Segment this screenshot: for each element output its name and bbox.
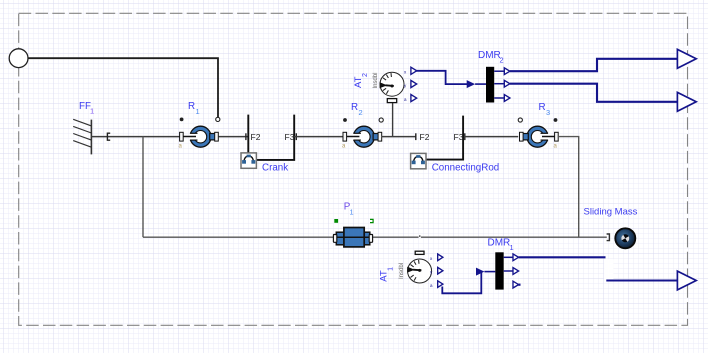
border output connector 3 — [677, 271, 696, 290]
wire Crank F3 to R2 — [294, 136, 343, 138]
prismatic joint P1 — [333, 228, 372, 247]
wire FF1 to R1 — [92, 136, 180, 138]
sensor AT2 gauge — [380, 72, 404, 102]
svg-text:Insdbl: Insdbl — [399, 263, 405, 279]
wire R2 to ConnectingRod F2 — [382, 136, 416, 138]
wire ConnectingRod F3 to R3 — [465, 136, 518, 138]
svg-text:R: R — [351, 102, 358, 113]
wire R3 to sliding mass row — [558, 137, 579, 238]
revolute joint R2 — [343, 126, 382, 147]
svg-text:1: 1 — [350, 208, 354, 217]
signal wire AT1 to DMR1 — [442, 272, 481, 294]
svg-text:1: 1 — [510, 243, 514, 252]
demultiplexer DMR1 — [495, 252, 503, 289]
svg-text:Insdbl: Insdbl — [373, 72, 379, 88]
svg-text:1: 1 — [90, 107, 94, 116]
svg-text:F3: F3 — [285, 132, 295, 142]
svg-text:R: R — [539, 102, 546, 113]
svg-text:R: R — [188, 101, 195, 112]
border output connector 2 — [677, 92, 696, 111]
signal wire AT2 to DMR2 — [416, 71, 468, 84]
signal wire DMR1 out1 — [519, 256, 606, 258]
wire prismatic row left segment — [143, 236, 333, 238]
input flange connector circle — [9, 49, 28, 68]
R3 support ports — [518, 118, 522, 122]
svg-text:F2: F2 — [420, 132, 430, 142]
svg-text:3: 3 — [546, 108, 550, 117]
signal wire DMR2 out1 to border output — [510, 59, 678, 71]
wire from input flange to R1 support port — [28, 58, 218, 117]
DMR2 outputs — [494, 70, 504, 72]
svg-text:1: 1 — [388, 267, 395, 271]
sensor AT2 stem — [392, 103, 394, 137]
erased patch — [604, 259, 613, 279]
FF1 connector bracket — [107, 133, 110, 140]
R1 support ports — [180, 118, 184, 122]
P1 state markers — [334, 219, 338, 223]
svg-text:Crank: Crank — [262, 163, 288, 174]
svg-text:2: 2 — [362, 73, 369, 77]
svg-text:F2: F2 — [251, 132, 261, 142]
revolute joint R3 — [520, 126, 559, 147]
svg-text:1: 1 — [196, 107, 200, 116]
svg-text:DMR: DMR — [488, 238, 511, 249]
svg-text:DMR: DMR — [478, 50, 501, 61]
fixed frame FF1 — [73, 119, 91, 154]
sliding mass connector bracket — [607, 234, 610, 241]
wire prismatic row right segment — [373, 236, 419, 238]
submodel Crank — [241, 115, 294, 169]
submodel ConnectingRod — [411, 116, 464, 169]
sliding mass body — [615, 228, 635, 248]
border output connector 1 — [677, 49, 696, 68]
demultiplexer DMR2 — [486, 67, 494, 103]
signal wire to border output 3 — [606, 279, 677, 281]
svg-text:F3: F3 — [454, 132, 464, 142]
signal wire DMR2 out2 to border output — [510, 84, 678, 102]
svg-text:Sliding Mass: Sliding Mass — [584, 207, 638, 218]
sensor AT1 gauge — [407, 251, 431, 283]
ConnectingRod port labels — [415, 133, 417, 140]
R2 support ports — [343, 118, 347, 122]
svg-text:AT: AT — [353, 76, 364, 88]
svg-text:2: 2 — [359, 108, 363, 117]
wire R1 to Crank F2 — [218, 136, 248, 138]
AT1 attach tick — [419, 235, 421, 237]
revolute joint R1 — [180, 126, 219, 147]
svg-text:2: 2 — [500, 56, 504, 65]
wire branch down to prismatic row — [142, 137, 144, 238]
DMR1 outputs — [504, 256, 513, 258]
svg-text:ConnectingRod: ConnectingRod — [432, 163, 500, 174]
